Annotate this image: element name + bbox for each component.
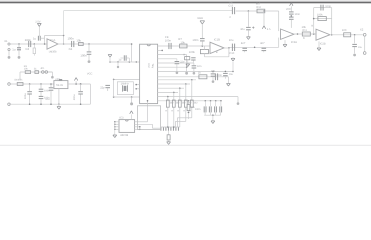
ground pad under C6: [117, 66, 119, 68]
svg-text:100p: 100p: [325, 5, 331, 8]
resistor R21 pullup: [187, 100, 195, 119]
wire pin row6 long: [158, 71, 234, 73]
wire drop A: [186, 55, 188, 72]
wire input to C2: [11, 43, 47, 45]
resistor R22 aref: [183, 54, 189, 60]
node psu b: [40, 83, 42, 85]
ground pad jumper: [51, 76, 54, 79]
wire bus row e: [158, 96, 238, 98]
capacitor C24: [215, 106, 217, 112]
resistor R17 LCD series: [177, 100, 186, 112]
ground pad under C5: [88, 60, 91, 63]
capacitor C14 electrolytic bias: [240, 11, 254, 36]
svg-text:C10: C10: [229, 52, 234, 55]
resistor R3 sensor: [24, 65, 31, 74]
wire IC3 SCL: [135, 100, 149, 122]
svg-text:4n7: 4n7: [241, 42, 246, 45]
wire 5V output: [68, 83, 91, 85]
wire IC3 SDA: [135, 124, 161, 128]
svg-text:IC1A: IC1A: [50, 39, 56, 42]
resistor R4 trim: [34, 68, 39, 74]
node U1B output: [228, 47, 230, 49]
svg-text:10u: 10u: [240, 28, 245, 31]
svg-text:78L05: 78L05: [56, 84, 64, 87]
connector X1 audio input jack: [4, 40, 10, 56]
ground below U2A: [283, 40, 287, 47]
op-amp U2A: [281, 29, 298, 44]
svg-text:100n: 100n: [68, 37, 75, 41]
svg-text:IC2B: IC2B: [320, 43, 326, 46]
wire into IC2 pin left: [109, 61, 139, 62]
wire stair col3: [179, 107, 181, 127]
node input junction: [18, 43, 20, 45]
svg-text:100n: 100n: [192, 39, 198, 42]
capacitor C26 electrolytic input: [24, 84, 32, 104]
wire pin row4: [158, 62, 194, 64]
resistor R1 bias to ground: [33, 44, 35, 56]
svg-text:4n7: 4n7: [260, 42, 265, 45]
ground arrow cap row: [211, 115, 215, 123]
connector X2 output jack: [360, 28, 366, 55]
ground below U2B: [317, 41, 321, 50]
wire bus row a: [158, 79, 196, 81]
svg-text:100n: 100n: [294, 13, 300, 16]
wire output run: [330, 34, 363, 36]
svg-text:10u: 10u: [358, 46, 363, 49]
node output shunt: [354, 34, 356, 36]
svg-text:B: B: [216, 51, 218, 54]
capacitor C1 input shunt: [12, 44, 21, 56]
resistor R10 on rail: [256, 3, 265, 13]
svg-text:100n: 100n: [80, 53, 87, 57]
wire jumper to pad: [48, 72, 52, 76]
node psu a: [29, 83, 31, 85]
node U2B output: [331, 34, 333, 36]
resistor R2 series: [76, 38, 83, 45]
ground AGND symbol: [108, 55, 112, 62]
IC U2 microcontroller body: [140, 44, 158, 103]
svg-text:100n: 100n: [165, 40, 171, 43]
svg-text:16MHz: 16MHz: [121, 83, 130, 86]
wire U2B feedback top: [314, 7, 332, 9]
wire psu right leg: [89, 84, 91, 104]
svg-text:C: C: [229, 16, 231, 19]
wire IC2 XTAL1: [113, 79, 140, 81]
resistor R16 LCD series: [171, 100, 180, 112]
op-amp U1B: [210, 38, 224, 53]
resistor R12 feedback: [317, 14, 326, 21]
pin stubs IC3 left: [114, 121, 119, 130]
op-amp U1A feedback loop wire: [45, 35, 64, 44]
wire psu bottom rail: [9, 103, 90, 105]
capacitor C19 shunt: [211, 71, 223, 82]
svg-text:VCC: VCC: [87, 72, 93, 75]
node before IC2 input: [88, 43, 90, 45]
resistor R13 output series: [342, 29, 351, 37]
ground pad drop A: [185, 72, 188, 75]
capacitor C10 series: [229, 39, 235, 55]
svg-text:2.5V: 2.5V: [35, 20, 41, 23]
wire drop col4: [185, 84, 187, 100]
ground symbol regulator: [57, 104, 61, 109]
wire bus row c: [158, 87, 184, 89]
svg-text:100k: 100k: [317, 14, 323, 17]
wire bus row b: [158, 83, 190, 85]
IC U3 eeprom 24C08 body: [119, 117, 135, 138]
resistor R7 series: [178, 38, 187, 48]
resistor R14 series: [198, 72, 207, 79]
supply arrow VREF: [262, 11, 271, 31]
ground IC3: [113, 129, 117, 137]
wire cap row taps: [205, 100, 222, 106]
node filter mid: [254, 47, 256, 49]
capacitor C4 series after U1A: [68, 37, 75, 52]
svg-text:VCC: VCC: [286, 8, 292, 11]
capacitor C28: [39, 92, 50, 104]
supply VCC arrow IC3: [130, 111, 133, 120]
pin stubs IC3 right: [135, 126, 141, 130]
capacitor C11 shunt: [241, 42, 247, 52]
svg-text:IC2A: IC2A: [291, 41, 297, 44]
wire stair col1: [167, 107, 169, 127]
connector SV1 header bus: [161, 126, 180, 131]
wire drop to ground: [227, 77, 229, 83]
resistor R18 LCD series: [183, 100, 192, 112]
connector X3 ground ring: [8, 103, 11, 106]
supply arrow 5V out: [74, 78, 77, 85]
supply symbol VCC/2 bias: [35, 20, 41, 36]
wire top rail to right section: [64, 10, 233, 12]
wire drop col5: [191, 80, 193, 100]
svg-text:100k: 100k: [189, 51, 195, 54]
label VCC net: [87, 72, 93, 75]
ground arrow row7: [227, 84, 231, 87]
wire stair col4: [175, 107, 185, 127]
capacitor C30 electrolytic output: [73, 83, 83, 104]
wire stair col5: [177, 107, 191, 127]
pin stub ADC: [158, 50, 163, 52]
label cap row: [195, 108, 201, 111]
svg-text:24C08: 24C08: [120, 134, 128, 137]
wire cap row bottoms: [205, 112, 221, 115]
svg-text:LM358: LM358: [49, 50, 57, 53]
capacitor C12 shunt: [260, 42, 266, 52]
wire DAC out: [158, 45, 210, 47]
resistor R11 series: [302, 26, 311, 40]
svg-text:IC3: IC3: [119, 117, 124, 120]
ground pad output: [353, 54, 356, 57]
crystal Q1 box outline: [117, 82, 133, 95]
wire IC2 XTAL2: [113, 96, 140, 98]
svg-text:JP1: JP1: [40, 67, 45, 70]
resistor R8 feedback U1B: [189, 46, 209, 57]
crystal Q1: [122, 85, 127, 91]
capacitor C8 series on DAC out: [165, 36, 171, 49]
svg-text:1u: 1u: [33, 37, 37, 41]
svg-text:2k2: 2k2: [194, 102, 199, 105]
op-amp U2B: [311, 25, 330, 46]
wire sensor row: [20, 72, 52, 80]
svg-text:X1: X1: [4, 40, 8, 43]
node U2A out: [297, 33, 299, 35]
capacitor C5 shunt at IC2 input: [80, 44, 91, 60]
jumper JP1: [40, 67, 47, 73]
connector X3 supply input: [8, 83, 54, 86]
svg-text:100n: 100n: [195, 108, 201, 111]
ground arrow mid right: [231, 57, 235, 71]
capacitor C20 shunt: [223, 73, 233, 79]
capacitor C25: [220, 106, 222, 112]
capacitor C22: [204, 106, 206, 112]
svg-text:2k2: 2k2: [176, 102, 181, 105]
wire U1A output to IC2: [58, 43, 132, 45]
wire U2B feedback left leg: [313, 8, 315, 34]
ground arrow aref: [186, 60, 190, 67]
node U1B input: [202, 45, 204, 47]
diode D1: [14, 79, 23, 86]
wire stair col2: [173, 107, 175, 127]
capacitor C23: [209, 106, 211, 112]
svg-text:100u: 100u: [73, 94, 76, 100]
wire drop col2: [173, 92, 175, 100]
wire drop col3: [179, 88, 181, 100]
wire regulator ground: [58, 89, 60, 105]
wire IC2 input drop: [131, 43, 133, 62]
svg-text:2k2: 2k2: [170, 102, 175, 105]
svg-text:10n: 10n: [197, 65, 202, 68]
svg-text:1u: 1u: [12, 47, 16, 51]
capacitor C7 xtal: [100, 85, 110, 91]
module U4 body: [138, 106, 161, 130]
svg-text:10k: 10k: [76, 38, 81, 42]
wire pin row7: [158, 76, 229, 78]
wire header to ground: [168, 131, 170, 135]
capacitor C3 bias feed: [33, 36, 45, 44]
wire pin to drop A: [158, 54, 187, 56]
svg-text:10u: 10u: [229, 39, 234, 42]
capacitor C6 decoupling: [118, 55, 129, 65]
capacitor C31 aref: [191, 58, 195, 63]
ground pad under X1: [8, 56, 11, 59]
svg-text:R11: R11: [303, 29, 308, 32]
ground symbol header: [167, 140, 171, 144]
capacitor C21 series: [211, 70, 218, 80]
svg-text:C4: C4: [69, 47, 73, 51]
svg-text:100u: 100u: [24, 93, 27, 99]
svg-text:C21: C21: [211, 70, 216, 73]
svg-text:R10: R10: [256, 6, 261, 9]
resistor R20 contrast: [167, 135, 170, 140]
svg-text:IC2: IC2: [147, 64, 150, 69]
voltage regulator IC4 78L05: [54, 79, 68, 89]
capacitor C29: [45, 83, 53, 104]
svg-text:R: R: [303, 37, 305, 40]
supply VCC stack above U2A: [286, 3, 301, 28]
capacitor C17 shunt: [175, 59, 185, 74]
wire U2B feedback mid: [313, 18, 332, 20]
supply GND arrow above U1B: [197, 17, 204, 38]
op-amp U1A: [47, 39, 58, 54]
wire riser to top rail: [63, 11, 65, 36]
capacitor C15 feedback: [321, 5, 332, 11]
svg-text:22p: 22p: [100, 87, 105, 90]
svg-text:10u: 10u: [45, 98, 50, 101]
resistor R15 LCD series: [165, 100, 174, 112]
node bias: [248, 10, 250, 12]
schematic sheet bottom border: [0, 144, 371, 147]
resistor R19 LCD series: [189, 100, 198, 112]
svg-text:100: 100: [342, 29, 347, 32]
capacitor C16 output shunt: [352, 35, 362, 53]
node U1A inverting input: [44, 43, 46, 45]
svg-text:1N4001: 1N4001: [14, 79, 23, 82]
wire U2B feedback right leg: [331, 8, 333, 35]
capacitor C9 on supply line: [192, 39, 204, 46]
wire bus row d: [158, 92, 178, 94]
label 5V net: [55, 78, 60, 81]
wire pin row3: [158, 58, 177, 60]
ground pad xtal: [130, 102, 133, 105]
wire pin row5: [158, 66, 187, 68]
node after C2: [34, 43, 36, 45]
svg-text:GND: GND: [197, 17, 203, 20]
svg-text:C2: C2: [25, 47, 29, 51]
wire filter rise to U2A: [278, 38, 280, 48]
wire cap row bus: [204, 114, 221, 116]
wire U2A out: [294, 33, 316, 35]
ground pad under C1: [18, 56, 21, 59]
node U1A output: [63, 35, 65, 45]
node U2B in: [313, 33, 315, 35]
wire rail to bias node: [236, 11, 279, 31]
wire bus row f: [158, 100, 222, 102]
capacitor C27: [39, 84, 50, 92]
pin stubs IC2 left NC: [135, 84, 139, 90]
svg-text:C13: C13: [228, 5, 233, 8]
wire xtal ground leg: [131, 97, 133, 103]
wire row e corner down: [237, 97, 240, 105]
wire U1B feedback loop: [204, 48, 229, 57]
wire drop col1: [167, 97, 169, 100]
capacitor C2 series coupling: [25, 38, 32, 51]
svg-text:100n: 100n: [25, 38, 32, 42]
node rail R10: [263, 10, 265, 12]
capacitor C18 shunt: [192, 63, 202, 74]
schematic sheet top border: [0, 0, 371, 3]
wire U1B out to filter: [224, 46, 279, 49]
svg-text:IC1B: IC1B: [214, 38, 220, 41]
svg-text:10u: 10u: [229, 73, 234, 76]
svg-text:2.5: 2.5: [267, 28, 271, 31]
svg-text:Tiny: Tiny: [151, 64, 154, 69]
wire xtal left leg: [113, 79, 115, 97]
svg-text:10k: 10k: [180, 41, 185, 44]
ground symbol bias: [247, 37, 251, 40]
svg-text:2k2: 2k2: [182, 102, 187, 105]
capacitor C13 series on rail: [228, 1, 234, 18]
svg-text:X2: X2: [360, 28, 364, 32]
